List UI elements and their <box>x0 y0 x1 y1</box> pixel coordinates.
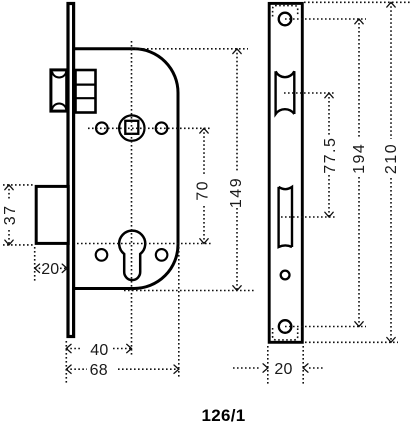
deadbolt <box>36 186 68 243</box>
screw post left lower <box>96 249 108 261</box>
arrow 194 top <box>355 19 363 24</box>
dim 149 line <box>236 49 238 172</box>
svg-text:20: 20 <box>274 361 292 378</box>
svg-text:149: 149 <box>228 177 245 208</box>
latch follower box <box>76 70 96 113</box>
arrow 20 deadbolt right <box>62 264 67 272</box>
dim 40 line <box>66 348 82 350</box>
latch center extension <box>284 92 336 94</box>
bottom screw hole <box>279 320 292 333</box>
arrow 40 right <box>127 344 132 352</box>
latch bevel arc top <box>52 72 66 78</box>
strike faceplate (front view) <box>269 3 302 342</box>
body right extension <box>178 247 180 377</box>
top screw hole <box>279 13 292 26</box>
svg-text:194: 194 <box>351 143 368 174</box>
svg-text:40: 40 <box>90 342 108 359</box>
svg-text:68: 68 <box>90 362 108 379</box>
vertical centerline <box>131 41 133 355</box>
arrow 20 plate right (points left) <box>303 364 308 372</box>
arrow 77.5 top <box>325 93 333 98</box>
dim 20 deadbolt line <box>35 267 41 269</box>
faceplate left extension <box>65 341 67 384</box>
cylinder fixing hole <box>281 271 290 280</box>
body bottom extension <box>124 290 254 292</box>
latch bolt head <box>51 70 67 111</box>
arrow 68 right <box>174 365 179 373</box>
dim 77.5 line <box>328 93 330 136</box>
follower divider 1 <box>76 83 96 85</box>
body top extension <box>131 48 248 50</box>
arrow 37 bottom <box>5 240 13 245</box>
follower divider 2 <box>76 97 96 99</box>
screw post right lower <box>156 249 168 261</box>
dim 210 line <box>390 2 392 139</box>
arrow 194 bottom <box>355 322 363 327</box>
latch cutout <box>276 71 295 114</box>
arrow 149 top <box>233 49 241 54</box>
dim 37 line <box>8 185 10 200</box>
top screw extension <box>285 18 366 20</box>
deadbolt cutout <box>279 187 292 247</box>
deadbolt line extension <box>281 216 336 218</box>
svg-text:20: 20 <box>41 261 59 278</box>
faceplate (side view) <box>68 4 74 337</box>
arrow 20 deadbolt left <box>35 264 40 272</box>
cylinder axis line <box>77 243 213 245</box>
svg-text:70: 70 <box>194 180 211 201</box>
deadbolt left extension <box>34 247 36 283</box>
dim 70 line <box>203 128 205 174</box>
arrow 37 top <box>5 185 13 190</box>
arrow 210 bottom <box>387 338 395 343</box>
bottom screw extension <box>285 326 366 328</box>
svg-text:210: 210 <box>383 143 400 174</box>
deadbolt bottom extension <box>3 244 34 246</box>
dim 194 line <box>358 19 360 138</box>
arrow 40 left <box>66 344 71 352</box>
spindle hub circle <box>119 115 144 140</box>
arrow 77.5 bottom <box>325 212 333 217</box>
spindle axis line <box>88 127 210 129</box>
latch bevel arc bottom <box>52 103 66 109</box>
arrow 70 top <box>200 128 208 133</box>
arrow 68 left <box>66 365 71 373</box>
strike plate bottom end dotted bevel <box>273 328 298 340</box>
plate bottom extension <box>305 341 398 343</box>
svg-text:37: 37 <box>2 205 19 226</box>
plate left extension below <box>267 346 269 386</box>
arrow 149 bottom <box>233 286 241 291</box>
arrow 210 top <box>387 2 395 7</box>
arrow 70 bottom <box>200 239 208 244</box>
plate top extension <box>304 1 410 3</box>
svg-text:77.5: 77.5 <box>322 137 339 174</box>
plate right extension below <box>302 346 304 386</box>
screw post right upper <box>156 122 168 134</box>
strike plate top end dotted bevel <box>273 6 298 17</box>
euro cylinder hole <box>119 231 145 280</box>
dim 68 line <box>66 368 87 370</box>
dim 20 plate tails <box>233 367 261 369</box>
lock body outline <box>74 49 178 289</box>
svg-text:126/1: 126/1 <box>201 406 245 425</box>
deadbolt top extension <box>3 184 34 186</box>
screw post left upper <box>96 122 108 134</box>
spindle square <box>125 121 138 134</box>
arrow 20 plate left (points right) <box>263 364 268 372</box>
